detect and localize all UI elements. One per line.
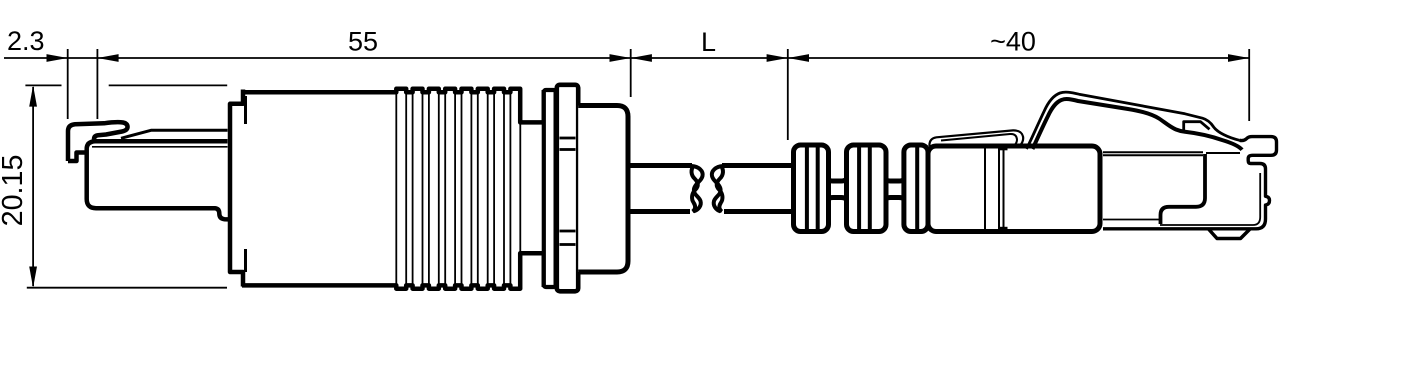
svg-text:~40: ~40: [990, 27, 1036, 57]
svg-text:2.3: 2.3: [7, 26, 45, 56]
svg-text:L: L: [701, 27, 716, 57]
svg-text:55: 55: [348, 27, 378, 57]
svg-text:20.15: 20.15: [0, 155, 29, 227]
